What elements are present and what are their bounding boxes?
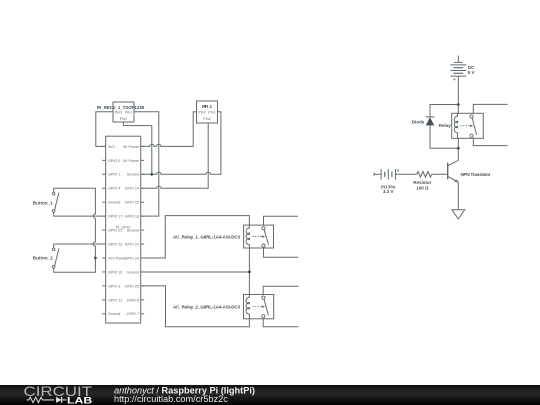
wire IR Pin2 down to ground net: [123, 122, 151, 174]
svg-text:GPIO 22: GPIO 22: [108, 242, 122, 246]
svg-text:5V Power: 5V Power: [123, 159, 140, 163]
svg-text:Ground: Ground: [108, 312, 120, 316]
wire Button_1 top to 3V3 Power rail: [54, 188, 96, 272]
wire battery to relay coil top: [457, 76, 459, 113]
svg-text:GPIO 17: GPIO 17: [108, 215, 122, 219]
svg-text:Diode: Diode: [412, 119, 425, 124]
GPIO header PI_GPIO: [102, 136, 144, 323]
svg-text:3.3 V: 3.3 V: [383, 189, 394, 194]
wire GPIO 14 to PIR Pin2: [141, 123, 209, 188]
diode (flyback): [412, 117, 435, 126]
svg-text:LAB: LAB: [67, 396, 92, 405]
svg-text:GPIO 1: GPIO 1: [108, 173, 120, 177]
svg-text:+: +: [453, 77, 456, 82]
svg-text:Button_1: Button_1: [33, 200, 53, 205]
svg-text:Pin1: Pin1: [125, 111, 132, 115]
svg-text:GPIO 7: GPIO 7: [127, 312, 139, 316]
svg-text:GPIO 24: GPIO 24: [125, 256, 139, 260]
svg-text:http://circuitlab.com/cr5bz2c: http://circuitlab.com/cr5bz2c: [114, 394, 228, 404]
wire Ground row to relay coils junction: [141, 271, 250, 273]
wire GPIO 24 to relay 1 coil: [141, 216, 250, 258]
svg-text:GPIO 9: GPIO 9: [108, 284, 120, 288]
wire Button_1 bottom to GPIO 17: [54, 212, 106, 216]
wire Button_2 top to GPIO 22: [54, 244, 106, 248]
svg-text:GPIO 23: GPIO 23: [125, 242, 139, 246]
svg-text:GPIO 25: GPIO 25: [125, 284, 139, 288]
svg-text:GPIO 21: GPIO 21: [108, 229, 122, 233]
wire relay2 switch top out: [263, 286, 298, 294]
footer bar: [0, 385, 540, 405]
wire relay switch bottom out: [473, 138, 507, 145]
relay AC_Relay_2_G6RL-1A4-ASI-DC3: [173, 295, 274, 319]
ground: [452, 210, 465, 219]
svg-text:GPIO 15: GPIO 15: [125, 201, 139, 205]
svg-text:Pin3: Pin3: [198, 111, 205, 115]
wire relay1 switch top out: [264, 216, 299, 225]
svg-text:Ground: Ground: [127, 229, 139, 233]
svg-text:AC_Relay_1_G6RL-1A4-ASI-DC3: AC_Relay_1_G6RL-1A4-ASI-DC3: [173, 234, 240, 239]
wire relay switch top out: [473, 104, 507, 113]
svg-text:Pin1: Pin1: [208, 111, 215, 115]
wire relay1 coil bottom to relay2 coil top: [248, 248, 250, 295]
svg-text:GPIO 18: GPIO 18: [125, 215, 139, 219]
svg-text:IR_RECV_1_TSOP1238: IR_RECV_1_TSOP1238: [97, 105, 144, 110]
wire GPIO 25 to relay 2 coil: [141, 286, 250, 327]
svg-text:Ground: Ground: [127, 173, 139, 177]
relay AC_Relay_1_G6RL-1A4-ASI-DC3: [173, 225, 274, 248]
wire relay2 switch bottom out: [263, 319, 298, 327]
svg-text:Ground: Ground: [108, 201, 120, 205]
svg-text:GPIO 4: GPIO 4: [108, 187, 120, 191]
battery I/O Pin 3.3 V: [374, 168, 400, 194]
wire relay1 switch bottom out: [264, 248, 299, 257]
wire IR Pin3 to 3V3: [96, 112, 113, 147]
svg-text:Ground: Ground: [127, 270, 139, 274]
svg-text:GPIO 10: GPIO 10: [108, 270, 122, 274]
svg-text:GPIO 14: GPIO 14: [125, 187, 139, 191]
svg-text:5 V: 5 V: [468, 70, 475, 75]
svg-text:3V3: 3V3: [108, 145, 115, 149]
resistor Resistor 100 Ohm: [413, 172, 431, 191]
wire IR Pin1 to GPIO 18: [134, 112, 159, 216]
wire resistor to I/O pin source: [396, 173, 417, 175]
svg-text:Relay: Relay: [439, 123, 452, 128]
battery DC 5 V: [450, 56, 475, 82]
IC PIR_1: [197, 101, 218, 123]
CircuitLab logo: [24, 383, 93, 405]
svg-text:+: +: [397, 168, 400, 173]
wire emitter to ground: [457, 182, 459, 210]
svg-text:Resistor: Resistor: [413, 180, 431, 185]
wire base to resistor: [432, 173, 448, 175]
svg-text:PIR_1: PIR_1: [202, 104, 212, 109]
pushbutton Button_1: [33, 192, 59, 212]
svg-text:Pin3: Pin3: [115, 111, 122, 115]
wire diode anode to coil bottom node: [430, 125, 458, 148]
pushbutton Button_2: [33, 248, 59, 268]
svg-text:5V Power: 5V Power: [123, 145, 140, 149]
svg-text:Pin2: Pin2: [203, 117, 210, 121]
wire Ground row to PIR Pin1: [141, 112, 221, 175]
wire 5V Power to PIR Pin3: [141, 112, 197, 147]
svg-text:Pin2: Pin2: [120, 117, 127, 121]
wire relay coil bottom to collector: [457, 138, 459, 160]
svg-text:GPIO 0: GPIO 0: [108, 159, 120, 163]
node junction dots: [94, 103, 460, 273]
svg-text:Button_2: Button_2: [33, 256, 53, 261]
svg-text:NPN Transistor: NPN Transistor: [461, 172, 491, 177]
transistor NPN Transistor: [448, 160, 491, 182]
svg-text:GPIO 8: GPIO 8: [127, 298, 139, 302]
svg-text:100 Ω: 100 Ω: [416, 186, 429, 191]
svg-text:AC_Relay_2_G6RL-1A4-ASI-DC3: AC_Relay_2_G6RL-1A4-ASI-DC3: [173, 305, 240, 310]
IC IR_RECV_1_TSOP1238: [97, 102, 144, 122]
relay (right): [452, 113, 484, 138]
wire node to diode cathode: [430, 105, 458, 117]
svg-text:GPIO 11: GPIO 11: [108, 298, 122, 302]
